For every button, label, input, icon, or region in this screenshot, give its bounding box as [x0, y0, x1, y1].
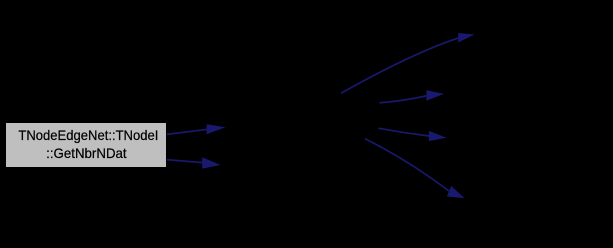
edge A: center to top-right node: [341, 33, 475, 93]
svg-text:TNodeEdgeNet::TNodeI: TNodeEdgeNet::TNodeI: [18, 127, 158, 143]
hidden node (right callee 2): [446, 72, 606, 117]
hidden node (top-right callee): [476, 12, 606, 57]
edge B: center to right node 2: [380, 90, 445, 103]
edge D: center to bottom-right node: [365, 139, 465, 199]
hidden node (center callee): [226, 112, 362, 174]
hidden node (right callee 3): [449, 116, 606, 161]
edge 2: box to center node (lower): [167, 157, 221, 168]
edge C: center to right node 3: [378, 128, 446, 141]
hidden node (bottom-right callee): [466, 176, 606, 221]
svg-text:::GetNbrNDat: ::GetNbrNDat: [46, 145, 127, 161]
edge 1: box to center node (upper): [167, 124, 226, 134]
node box TNodeEdgeNet::TNodeI::GetNbrNDat: [6, 123, 167, 168]
